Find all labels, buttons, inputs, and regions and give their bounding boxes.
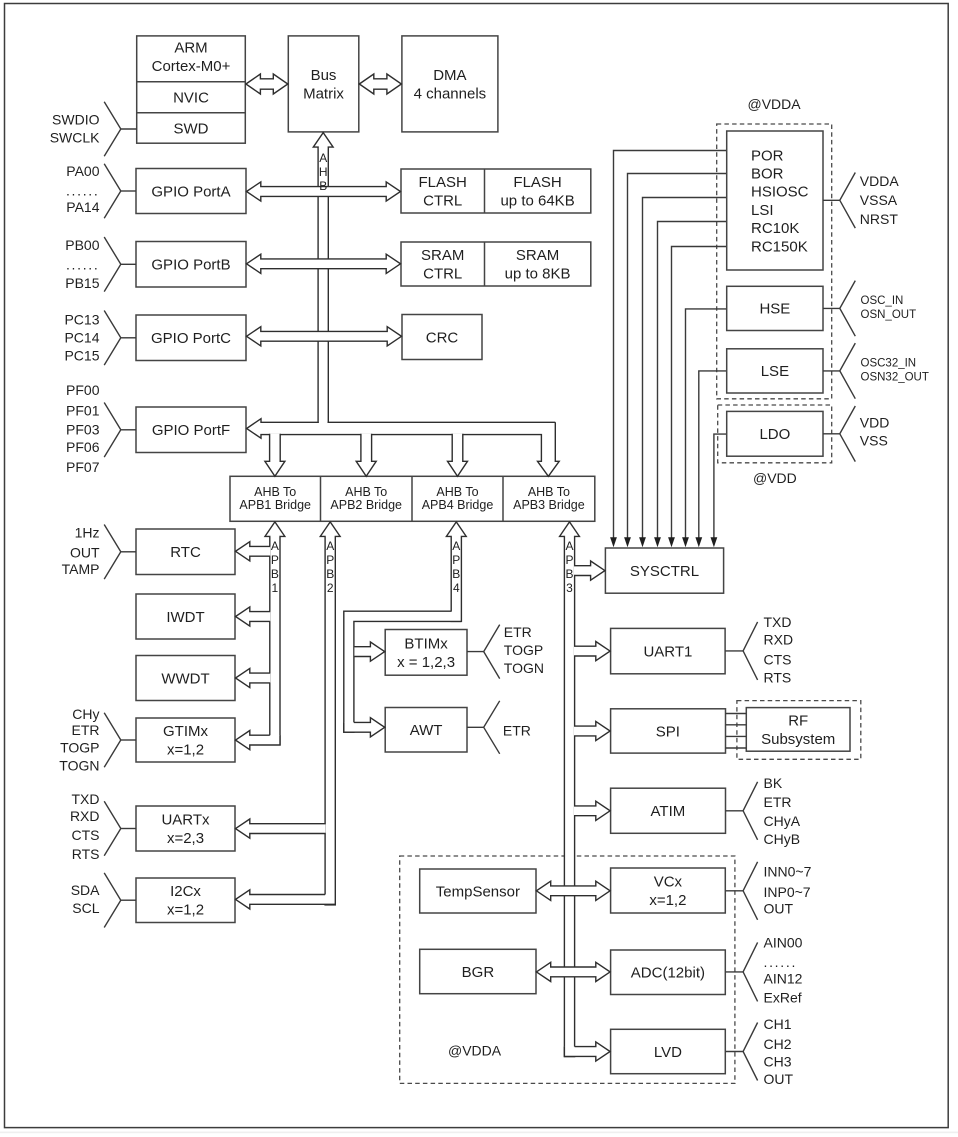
svg-text:OUT: OUT	[70, 544, 100, 560]
pin fan PB00..PB15	[104, 237, 121, 292]
double arrow TempSensor - APB3 - VCx	[536, 881, 610, 900]
svg-text:......: ......	[764, 954, 798, 970]
filled arrowhead LDO wire into SYSCTRL	[711, 537, 718, 547]
double arrow ARM - Bus Matrix	[246, 74, 288, 94]
svg-text:APB2 Bridge: APB2 Bridge	[330, 498, 402, 512]
divider FLASH CTRL/FLASH	[484, 169, 486, 213]
svg-text:@VDD: @VDD	[753, 470, 797, 486]
svg-text:UARTx: UARTx	[161, 812, 210, 829]
svg-text:x = 1,2,3: x = 1,2,3	[397, 654, 455, 671]
arrow APB1 to WWDT	[236, 668, 271, 687]
arrow APB1 to IWDT	[236, 607, 271, 626]
svg-text:PF01: PF01	[66, 402, 100, 418]
svg-text:CH2: CH2	[764, 1036, 792, 1052]
page bottom separator line	[0, 1132, 958, 1134]
svg-text:A: A	[271, 539, 279, 553]
svg-text:VDD: VDD	[860, 414, 890, 430]
svg-text:H: H	[319, 165, 328, 179]
svg-text:ADC(12bit): ADC(12bit)	[631, 965, 705, 982]
svg-text:DMA: DMA	[433, 67, 466, 84]
svg-text:SCL: SCL	[72, 900, 99, 916]
arrow APB4 to AWT (elbow end)	[344, 718, 385, 737]
svg-text:x=1,2: x=1,2	[649, 892, 686, 909]
pin fan ADC AIN00..ExRef	[743, 942, 758, 1001]
block GPIO PortA	[136, 169, 246, 214]
block VCx	[611, 868, 726, 913]
wire SPI-RF 2	[726, 724, 747, 726]
svg-text:A: A	[319, 151, 327, 165]
svg-text:PC13: PC13	[64, 311, 99, 327]
svg-text:CHyB: CHyB	[764, 831, 801, 847]
svg-text:ETR: ETR	[764, 794, 792, 810]
svg-text:GTIMx: GTIMx	[163, 723, 208, 740]
double arrow Bus Matrix - DMA	[359, 74, 401, 94]
svg-text:B: B	[452, 567, 460, 581]
svg-text:PF06: PF06	[66, 439, 100, 455]
svg-text:I2Cx: I2Cx	[170, 883, 201, 900]
dashed power domain box @VDDA (right)	[717, 124, 832, 399]
wire HSE to SYSCTRL	[686, 309, 727, 538]
pin fan OSC32_IN/OSN32_OUT	[840, 343, 856, 399]
svg-text:Matrix: Matrix	[303, 85, 344, 102]
AHB drop arrow into APB4 bridge	[448, 434, 468, 477]
block LVD	[611, 1029, 726, 1073]
arrow APB3 to UART1	[574, 642, 610, 661]
svg-text:TempSensor: TempSensor	[436, 883, 520, 900]
wire BOR to SYSCTRL	[628, 174, 727, 538]
divider bridge1/bridge2	[320, 476, 322, 521]
svg-text:P: P	[326, 553, 334, 567]
block DMA 4 channels	[402, 36, 498, 132]
svg-text:TOGP: TOGP	[60, 740, 99, 756]
wire HSIOSC to SYSCTRL	[643, 198, 727, 538]
svg-text:SRAM: SRAM	[421, 247, 464, 264]
svg-text:P: P	[452, 553, 460, 567]
AHB trunk bus (vertical, Bus Matrix down)	[318, 146, 328, 433]
svg-text:CH1: CH1	[764, 1016, 792, 1032]
pin fan GTIMx	[104, 713, 121, 768]
svg-text:B: B	[326, 567, 334, 581]
AHB distribution bus (horizontal, to bridges)	[247, 419, 560, 477]
svg-text:SYSCTRL: SYSCTRL	[630, 563, 699, 580]
dashed power domain box @VDD	[718, 405, 832, 463]
pin fan PF00..PF07	[104, 403, 121, 458]
AHB drop arrow into APB1 bridge	[265, 434, 285, 477]
svg-text:up to 64KB: up to 64KB	[500, 193, 574, 210]
svg-text:B: B	[271, 567, 279, 581]
svg-text:Bus: Bus	[311, 67, 337, 84]
divider bridge2/bridge4	[411, 476, 413, 521]
svg-text:RXD: RXD	[764, 632, 794, 648]
filled arrowhead POR wire into SYSCTRL	[610, 537, 617, 547]
svg-text:WWDT: WWDT	[161, 670, 209, 687]
svg-text:......: ......	[66, 182, 100, 198]
block CRC	[402, 315, 482, 360]
wire LSI to SYSCTRL	[658, 222, 727, 538]
filled arrowhead LSE wire into SYSCTRL	[695, 537, 702, 547]
svg-text:HSE: HSE	[759, 301, 790, 318]
svg-text:GPIO PortA: GPIO PortA	[151, 183, 230, 200]
svg-text:RXD: RXD	[70, 808, 100, 824]
svg-text:OSC_IN: OSC_IN	[861, 295, 904, 307]
arrow APB4 to BTIMx	[354, 642, 384, 661]
block WWDT	[136, 656, 235, 701]
svg-text:GPIO PortB: GPIO PortB	[151, 257, 230, 274]
block ARM Cortex-M0+ / NVIC / SWD	[137, 36, 246, 143]
APB1 arrowhead into APB1 bridge	[265, 522, 285, 537]
svg-text:4: 4	[453, 581, 460, 595]
block SYSCTRL	[605, 548, 723, 593]
block GPIO PortF	[136, 407, 246, 453]
svg-text:VCx: VCx	[654, 874, 683, 891]
wire SPI-RF 1	[726, 713, 747, 715]
svg-text:SWD: SWD	[174, 120, 209, 137]
svg-text:LDO: LDO	[759, 426, 790, 443]
svg-text:Subsystem: Subsystem	[761, 731, 835, 748]
arrow APB3 to SPI	[574, 721, 610, 740]
dashed analog domain box @VDDA (bottom)	[400, 856, 735, 1083]
arrow APB2 to I2Cx (elbow end)	[236, 890, 336, 909]
svg-text:RTS: RTS	[72, 846, 100, 862]
wire LDO to SYSCTRL	[714, 434, 727, 537]
block BGR	[420, 949, 536, 993]
svg-text:INN0~7: INN0~7	[764, 864, 812, 880]
svg-text:APB4 Bridge: APB4 Bridge	[422, 498, 494, 512]
wire SPI-RF 3	[726, 735, 747, 737]
block I2Cx	[136, 878, 235, 923]
svg-text:HSIOSC: HSIOSC	[751, 184, 809, 201]
svg-text:SWDIO: SWDIO	[52, 111, 100, 127]
block IWDT	[136, 594, 235, 639]
svg-text:ETR: ETR	[72, 722, 100, 738]
APB3 bus tube (vertical)	[564, 536, 574, 1057]
pin fan I2Cx	[104, 873, 121, 928]
svg-text:GPIO PortC: GPIO PortC	[151, 330, 231, 347]
svg-text:x=1,2: x=1,2	[167, 902, 204, 919]
svg-text:3: 3	[566, 581, 573, 595]
svg-text:PA00: PA00	[66, 163, 99, 179]
arrow APB3 to LVD (elbow end)	[564, 1042, 610, 1061]
svg-text:SPI: SPI	[656, 723, 680, 740]
svg-text:B: B	[565, 567, 573, 581]
AHB drop arrow into APB2 bridge	[356, 434, 376, 477]
svg-text:OUT: OUT	[764, 901, 794, 917]
svg-text:ExRef: ExRef	[764, 990, 802, 1006]
svg-text:RTS: RTS	[764, 669, 792, 685]
APB3 arrowhead into APB3 bridge	[560, 522, 580, 537]
svg-text:AIN00: AIN00	[764, 934, 803, 950]
wire LSE to SYSCTRL	[699, 371, 727, 538]
block AWT	[385, 708, 467, 753]
svg-text:CHy: CHy	[72, 706, 99, 722]
svg-text:TXD: TXD	[764, 614, 792, 630]
svg-text:BTIMx: BTIMx	[404, 635, 448, 652]
svg-text:PF03: PF03	[66, 422, 100, 438]
svg-text:APB1 Bridge: APB1 Bridge	[239, 498, 311, 512]
svg-text:PC15: PC15	[64, 347, 99, 363]
svg-text:UART1: UART1	[643, 643, 692, 660]
svg-text:PF00: PF00	[66, 382, 100, 398]
pin fan VDD/VSS	[840, 406, 856, 462]
svg-text:PC14: PC14	[64, 329, 99, 345]
divider SRAM CTRL/SRAM	[484, 242, 486, 286]
dashed box RF Subsystem	[737, 701, 861, 760]
svg-text:CTRL: CTRL	[423, 266, 462, 283]
block UART1	[611, 628, 726, 673]
svg-text:ETR: ETR	[503, 723, 531, 739]
svg-text:SDA: SDA	[71, 882, 100, 898]
pin fan SWDIO/SWCLK	[104, 102, 121, 157]
svg-text:OUT: OUT	[764, 1071, 794, 1087]
svg-text:BOR: BOR	[751, 166, 784, 183]
block RF Subsystem	[746, 708, 850, 752]
svg-text:NRST: NRST	[860, 211, 899, 227]
svg-text:A: A	[565, 539, 573, 553]
svg-text:PF07: PF07	[66, 459, 100, 475]
APB4 bus jog (horizontal elbow)	[344, 611, 462, 732]
svg-text:APB3 Bridge: APB3 Bridge	[513, 498, 585, 512]
svg-text:GPIO PortF: GPIO PortF	[152, 422, 230, 439]
block TempSensor	[420, 869, 536, 913]
block ATIM	[611, 788, 726, 833]
svg-text:CRC: CRC	[426, 329, 459, 346]
double arrow GPIO PortA - FLASH CTRL	[247, 182, 401, 201]
pin fan VCx INN/INP/OUT	[743, 862, 758, 920]
arrow APB3 to ATIM	[574, 801, 610, 820]
divider ARM/NVIC	[137, 81, 246, 83]
svg-text:FLASH: FLASH	[419, 174, 467, 191]
svg-text:PB00: PB00	[65, 237, 99, 253]
block Bus Matrix	[288, 36, 359, 132]
svg-text:INP0~7: INP0~7	[764, 884, 811, 900]
svg-text:Cortex-M0+: Cortex-M0+	[152, 58, 231, 75]
block ADC(12bit)	[611, 950, 726, 995]
svg-text:A: A	[326, 539, 334, 553]
svg-text:P: P	[565, 553, 573, 567]
pin fan AWT ETR	[484, 701, 500, 754]
double arrow GPIO PortC - CRC	[247, 327, 402, 346]
pin fan BTIMx ETR/TOGP/TOGN	[484, 625, 500, 679]
svg-text:A: A	[452, 539, 460, 553]
svg-text:ARM: ARM	[174, 40, 207, 57]
wire SPI-RF 4	[726, 747, 747, 749]
svg-text:LSE: LSE	[761, 363, 789, 380]
svg-text:BK: BK	[764, 775, 783, 791]
svg-text:SRAM: SRAM	[516, 247, 559, 264]
svg-text:RC150K: RC150K	[751, 238, 808, 255]
pin fan VDDA/VSSA/NRST	[840, 173, 856, 229]
double arrow BGR - APB3 - ADC(12bit)	[536, 962, 610, 981]
arrow APB2 to UARTx	[236, 819, 326, 838]
svg-text:TOGN: TOGN	[59, 758, 99, 774]
pin fan OSC_IN/OSN_OUT	[840, 281, 856, 337]
filled arrowhead LSI wire into SYSCTRL	[654, 537, 661, 547]
svg-text:POR: POR	[751, 147, 784, 164]
svg-text:TAMP: TAMP	[62, 561, 100, 577]
block GTIMx	[136, 718, 235, 762]
wire RC10K to SYSCTRL	[672, 247, 727, 538]
pin fan ATIM BK/ETR/CHyA/CHyB	[743, 782, 758, 840]
APB1 bus tube (vertical)	[270, 536, 280, 745]
svg-text:TOGP: TOGP	[504, 642, 543, 658]
svg-text:AIN12: AIN12	[764, 971, 803, 987]
svg-text:ATIM: ATIM	[651, 803, 686, 820]
block BTIMx	[385, 630, 467, 676]
pin fan RTC	[104, 525, 121, 580]
junction opening AHB trunk into distribution bus	[319, 421, 328, 423]
svg-text:up to 8KB: up to 8KB	[505, 266, 571, 283]
pin fan LVD CH1..OUT	[743, 1023, 758, 1081]
block FLASH CTRL + FLASH up to 64KB	[401, 169, 591, 213]
svg-text:PA14: PA14	[66, 199, 99, 215]
svg-text:@VDDA: @VDDA	[448, 1043, 502, 1059]
APB2 arrowhead into APB2 bridge	[320, 522, 340, 537]
filled arrowhead HSIOSC wire into SYSCTRL	[639, 537, 646, 547]
block LDO	[727, 411, 823, 456]
svg-text:CTS: CTS	[764, 651, 792, 667]
svg-text:VDDA: VDDA	[860, 173, 900, 189]
svg-text:RF: RF	[788, 713, 808, 730]
filled arrowhead RC10K wire into SYSCTRL	[668, 537, 675, 547]
svg-text:......: ......	[66, 256, 100, 272]
svg-text:CHyA: CHyA	[764, 813, 801, 829]
svg-text:IWDT: IWDT	[166, 609, 204, 626]
svg-text:ETR: ETR	[504, 624, 532, 640]
svg-text:AWT: AWT	[410, 722, 443, 739]
block SPI	[611, 709, 726, 753]
filled arrowhead BOR wire into SYSCTRL	[624, 537, 631, 547]
svg-text:1Hz: 1Hz	[75, 524, 100, 540]
pin fan PA00..PA14	[104, 164, 121, 219]
svg-text:PB15: PB15	[65, 275, 99, 291]
svg-text:RTC: RTC	[170, 544, 201, 561]
svg-text:B: B	[319, 179, 327, 193]
svg-text:VSSA: VSSA	[860, 192, 898, 208]
pin fan UART1 TXD/RXD/CTS/RTS	[743, 622, 758, 680]
svg-text:VSS: VSS	[860, 432, 888, 448]
AHB trunk arrowhead into Bus Matrix	[313, 133, 333, 149]
svg-text:CTRL: CTRL	[423, 193, 462, 210]
svg-text:OSN32_OUT: OSN32_OUT	[861, 372, 929, 384]
svg-text:OSN_OUT: OSN_OUT	[861, 309, 917, 321]
block row AHB-to-APB bridges	[230, 476, 595, 521]
svg-text:FLASH: FLASH	[513, 174, 561, 191]
block UARTx	[136, 806, 235, 851]
arrow APB3 to SYSCTRL	[574, 561, 605, 580]
svg-text:4 channels: 4 channels	[414, 85, 487, 102]
divider NVIC/SWD	[137, 112, 246, 114]
svg-text:LSI: LSI	[751, 202, 774, 219]
svg-text:2: 2	[327, 581, 334, 595]
arrow APB1 to RTC	[236, 542, 271, 561]
svg-text:1: 1	[272, 581, 279, 595]
svg-text:SWCLK: SWCLK	[50, 129, 100, 145]
block GPIO PortC	[136, 315, 246, 361]
wire POR to SYSCTRL	[614, 151, 727, 538]
APB4 arrowhead into APB4 bridge	[446, 522, 466, 537]
APB2 bus tube (vertical)	[325, 536, 335, 905]
svg-text:TXD: TXD	[72, 791, 100, 807]
svg-text:NVIC: NVIC	[173, 90, 209, 107]
svg-text:BGR: BGR	[462, 964, 495, 981]
block POR/BOR/HSIOSC/LSI/RC10K/RC150K	[727, 131, 823, 270]
divider bridge4/bridge3	[502, 476, 504, 521]
svg-text:LVD: LVD	[654, 1044, 682, 1061]
block SRAM CTRL + SRAM up to 8KB	[401, 242, 591, 286]
svg-text:TOGN: TOGN	[504, 660, 544, 676]
block LSE	[727, 349, 823, 393]
svg-text:P: P	[271, 553, 279, 567]
block GPIO PortB	[136, 242, 246, 288]
svg-text:CH3: CH3	[764, 1054, 792, 1070]
arrow APB1 to GTIMx (elbow end)	[236, 731, 281, 750]
svg-text:@VDDA: @VDDA	[748, 96, 802, 112]
svg-text:RC10K: RC10K	[751, 220, 799, 237]
APB4 bus tube upper (vertical from bridge4)	[451, 536, 461, 622]
double arrow GPIO PortB - SRAM CTRL	[247, 254, 401, 273]
block HSE	[727, 286, 823, 330]
filled arrowhead HSE wire into SYSCTRL	[682, 537, 689, 547]
svg-text:OSC32_IN: OSC32_IN	[861, 358, 917, 370]
svg-text:x=2,3: x=2,3	[167, 830, 204, 847]
svg-text:x=1,2: x=1,2	[167, 742, 204, 759]
pin fan PC13..PC15	[104, 311, 121, 366]
block RTC	[136, 529, 235, 575]
pin fan UARTx	[104, 801, 121, 856]
svg-text:CTS: CTS	[72, 827, 100, 843]
